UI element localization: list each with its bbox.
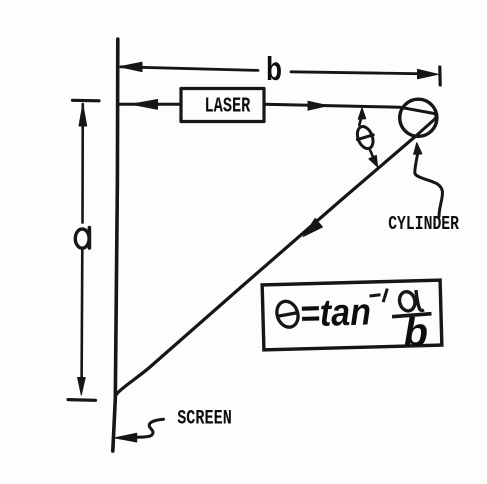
node screen pointer squiggle xyxy=(136,419,164,437)
svg-text:b: b xyxy=(266,50,282,87)
svg-text:=tan: =tan xyxy=(299,291,371,335)
svg-text:CYLINDER: CYLINDER xyxy=(388,213,459,235)
cylinder circle xyxy=(400,99,437,136)
node theta upper arrow xyxy=(359,116,361,125)
wire reflected beam diagonal to screen xyxy=(115,137,414,396)
node diagonal arrowhead xyxy=(303,218,322,236)
label a (dimension) xyxy=(75,229,89,248)
node b right end tick xyxy=(438,67,442,85)
wire laser to screen line xyxy=(119,103,180,106)
node theta lower arrow xyxy=(370,151,373,157)
laser box xyxy=(181,89,264,122)
formula box group xyxy=(262,280,442,359)
node formula theta xyxy=(273,298,301,330)
wire b dimension line xyxy=(121,67,426,74)
svg-text:LASER: LASER xyxy=(205,95,251,118)
node a top arrowhead xyxy=(79,104,87,126)
svg-text:SCREEN: SCREEN xyxy=(177,408,232,431)
label numerator a xyxy=(398,290,417,312)
node theta glyph xyxy=(354,124,375,151)
wire a dimension line xyxy=(82,104,83,383)
wire screen vertical line xyxy=(113,39,118,451)
node a dimension bottom tick xyxy=(68,398,96,402)
node a dimension top tick xyxy=(73,99,100,103)
node beam right arrowhead xyxy=(308,101,328,110)
node fraction bar xyxy=(392,314,432,317)
node cylinder pointer squiggle xyxy=(415,154,443,217)
node b left arrowhead xyxy=(119,62,142,71)
label superscript -1 xyxy=(369,289,387,303)
svg-text:b: b xyxy=(403,310,429,355)
node b right arrowhead xyxy=(418,69,439,78)
wire laser beam to cylinder xyxy=(264,104,436,137)
node a bottom arrowhead xyxy=(78,378,86,396)
node laser left arrowhead xyxy=(131,100,157,110)
